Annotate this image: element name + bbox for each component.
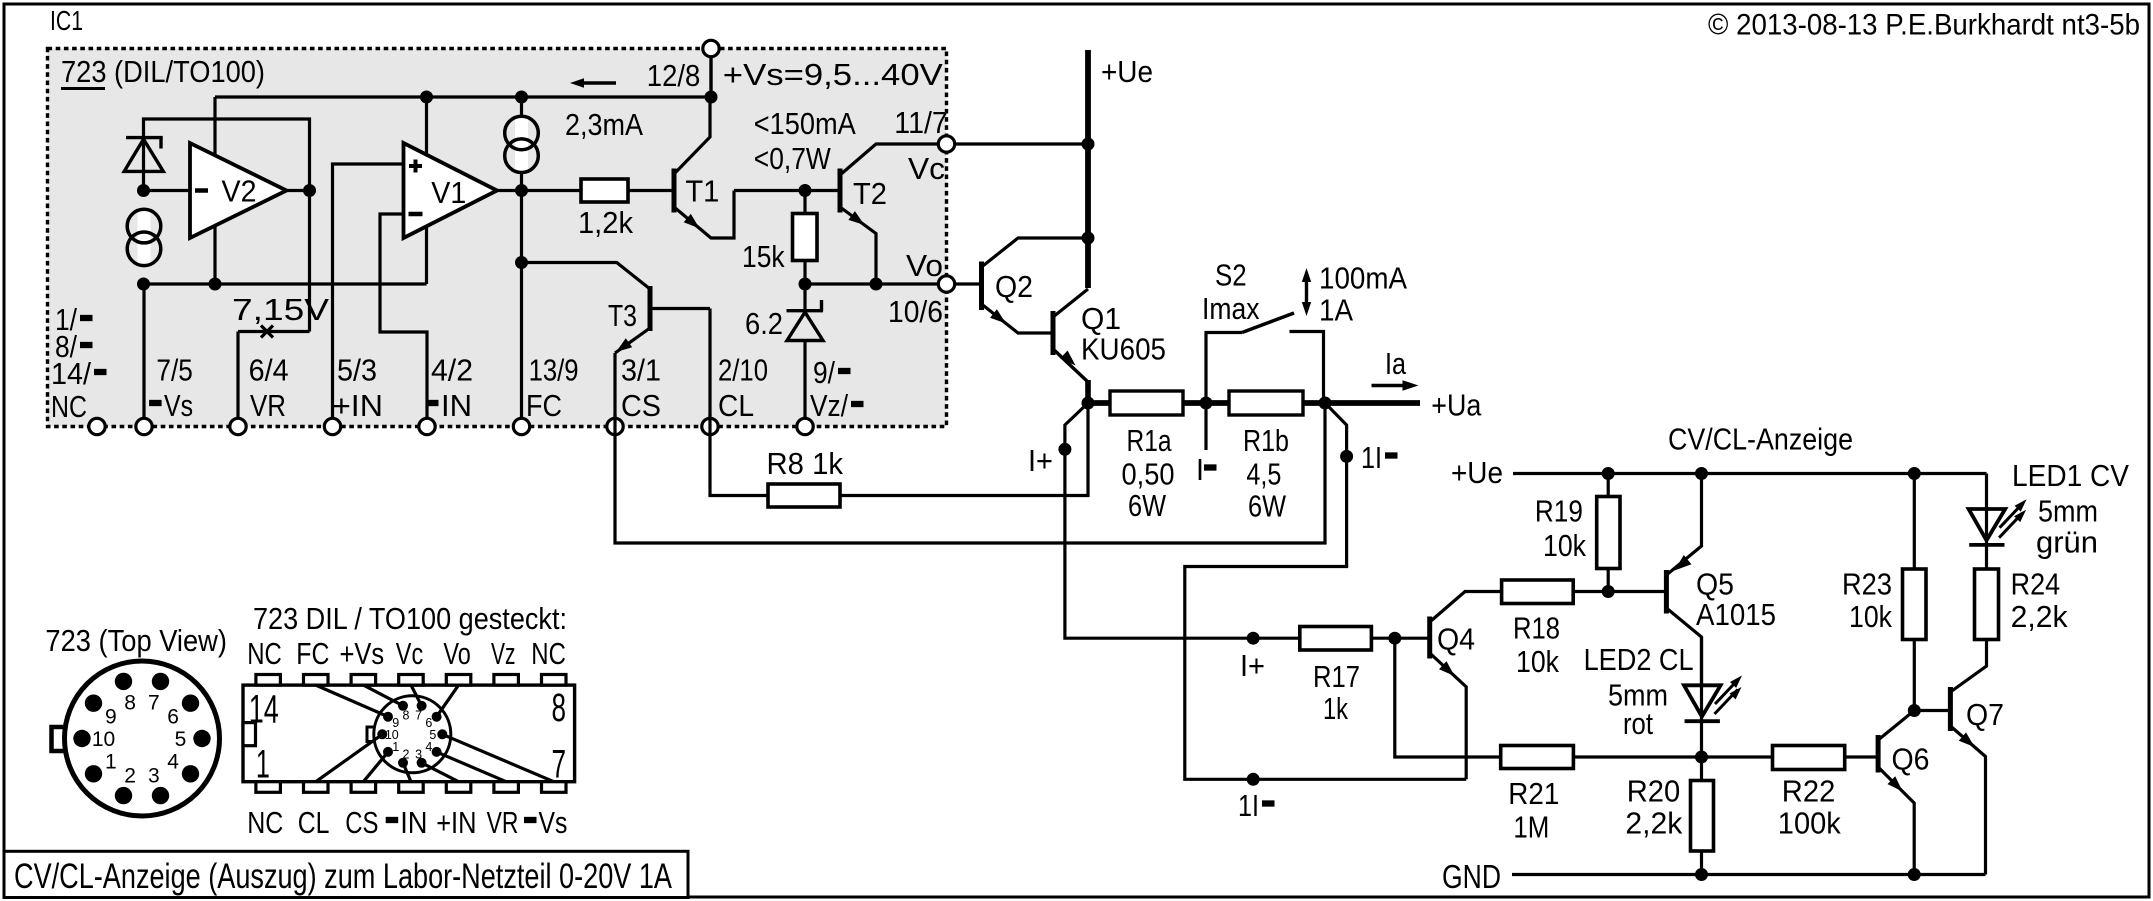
svg-text:8: 8 xyxy=(124,691,136,714)
svg-text:S2: S2 xyxy=(1215,258,1247,293)
svg-text:Ia: Ia xyxy=(1385,346,1407,381)
svg-text:Vz: Vz xyxy=(491,636,516,671)
label +Ua xyxy=(1431,388,1482,423)
svg-text:2: 2 xyxy=(124,765,136,788)
svg-text:7: 7 xyxy=(415,708,422,722)
label 7/5 -Vs xyxy=(149,353,193,424)
wire R18 to Q5 base xyxy=(1573,590,1666,593)
label 1I- upper xyxy=(1361,440,1398,475)
svg-text:I+: I+ xyxy=(1240,648,1265,683)
svg-text:5: 5 xyxy=(175,728,187,751)
wire +IN pin 5/3 xyxy=(333,164,404,427)
node R19 top xyxy=(1602,467,1615,480)
wire -Vs rail xyxy=(144,282,427,285)
resistor R18 xyxy=(1502,580,1574,679)
svg-text:1k: 1k xyxy=(1323,691,1348,726)
node R23 top xyxy=(1908,467,1921,480)
wire V2 input xyxy=(144,189,191,192)
label 5/3 +IN xyxy=(332,353,383,424)
svg-text:10: 10 xyxy=(92,728,115,751)
transistor T1 xyxy=(674,97,734,238)
wire GND rail xyxy=(1512,873,1986,876)
wire VR pin 6/4 xyxy=(236,332,239,427)
arrow 100mA/1A toggle xyxy=(1302,268,1311,316)
label 723 (DIL/TO100) xyxy=(61,54,265,89)
svg-text:6W: 6W xyxy=(1248,489,1287,524)
IC1 723 internal dashed box xyxy=(48,49,947,427)
wire VR horizontal 7,15V xyxy=(238,330,310,333)
transistor Q2 xyxy=(982,238,1089,333)
wire V1 supply xyxy=(425,97,428,284)
node rail-12/8 xyxy=(705,91,718,104)
node I- junction xyxy=(1200,397,1213,410)
wire -IN pin 4/2 xyxy=(380,214,427,427)
pin 11/7 Vc xyxy=(938,136,954,152)
op-amp V2 xyxy=(190,143,287,238)
wire CS to shunt right xyxy=(615,403,1325,543)
svg-text:100k: 100k xyxy=(1778,806,1841,841)
svg-text:CV/CL-Anzeige (Auszug) zum Lab: CV/CL-Anzeige (Auszug) zum Labor-Netztei… xyxy=(14,857,673,896)
label IC1 xyxy=(50,5,83,36)
svg-text:Vz/: Vz/ xyxy=(810,388,848,423)
node T2 emitter xyxy=(870,278,883,291)
svg-text:R22: R22 xyxy=(1782,774,1836,809)
svg-text:10: 10 xyxy=(385,728,399,742)
svg-text:1I: 1I xyxy=(1238,788,1259,823)
svg-text:R1a: R1a xyxy=(1127,423,1173,458)
transistor T2 xyxy=(840,144,939,284)
wire +Ue input xyxy=(1085,50,1091,288)
svg-text:Vo: Vo xyxy=(906,248,943,283)
inner TO100 pin numbers xyxy=(385,708,436,761)
wire I- stub xyxy=(1204,403,1207,450)
svg-text:Vc: Vc xyxy=(396,636,423,671)
svg-text:6W: 6W xyxy=(1128,488,1167,523)
svg-text:V2: V2 xyxy=(222,174,257,209)
resistor R1b xyxy=(1229,391,1303,415)
node LED2 cathode xyxy=(1695,751,1708,764)
label 4/2 -IN xyxy=(426,353,473,424)
label 9/- Vz/- xyxy=(810,355,864,423)
label 1/- 8/- 14/- xyxy=(51,302,107,391)
node rail-V1supply xyxy=(420,91,433,104)
svg-text:Vo: Vo xyxy=(443,636,470,671)
pin FC on IC edge xyxy=(513,418,529,434)
svg-text:Vc: Vc xyxy=(908,151,945,186)
wire Q2 base xyxy=(955,282,982,285)
LED2 CL diode xyxy=(1684,637,1742,757)
svg-text:2,3mA: 2,3mA xyxy=(565,107,643,142)
svg-text:6/4: 6/4 xyxy=(249,353,289,388)
transistor Q6 xyxy=(1878,711,1929,875)
svg-text:10k: 10k xyxy=(1849,599,1892,634)
svg-text:Q7: Q7 xyxy=(1966,697,2004,732)
svg-text:R17: R17 xyxy=(1313,659,1360,694)
transistor Q5 xyxy=(1666,474,1776,688)
svg-text:3: 3 xyxy=(415,747,422,761)
node V2 output xyxy=(303,184,316,197)
node -Vs V2 xyxy=(209,278,222,291)
svg-text:1: 1 xyxy=(256,742,270,786)
svg-text:R18: R18 xyxy=(1513,611,1560,646)
switch S2 xyxy=(1206,313,1324,403)
label 7,15V xyxy=(232,292,329,327)
resistor R24 xyxy=(1975,567,2069,640)
svg-text:10k: 10k xyxy=(1543,528,1586,563)
node Q5 emitter top xyxy=(1695,467,1708,480)
node R19 bottom xyxy=(1602,585,1615,598)
wire Q7 base xyxy=(1914,709,1950,712)
wire T1 emitter to T2 base xyxy=(734,189,840,192)
label 10/6 xyxy=(888,294,943,329)
wire LED1 feed xyxy=(1985,474,1988,570)
svg-text:15k: 15k xyxy=(742,239,785,274)
label I+ upper xyxy=(1028,443,1053,478)
svg-text:R1b: R1b xyxy=(1243,423,1289,458)
svg-text:6.2: 6.2 xyxy=(745,306,783,341)
svg-text:VR: VR xyxy=(487,805,519,840)
pin CS on IC edge xyxy=(607,418,623,434)
svg-text:rot: rot xyxy=(1623,706,1653,741)
label LED1 CV 5mm gruen xyxy=(2012,458,2129,560)
label LED2 CL 5mm rot xyxy=(1584,642,1694,741)
resistor R23 xyxy=(1842,474,1926,711)
svg-text:4: 4 xyxy=(425,740,432,754)
label S2 Imax xyxy=(1202,258,1260,327)
svg-text:I+: I+ xyxy=(1028,443,1053,478)
svg-text:2,2k: 2,2k xyxy=(2011,599,2068,634)
wire +Ue rail CVCL xyxy=(1513,472,1987,475)
label CV/CL-Anzeige xyxy=(1668,422,1853,457)
svg-text:1M: 1M xyxy=(1513,810,1549,845)
svg-text:4: 4 xyxy=(167,751,179,774)
label +Ue xyxy=(1101,54,1153,89)
svg-text:11/7: 11/7 xyxy=(894,105,948,140)
resistor 1,2k xyxy=(578,179,633,240)
svg-text:R24: R24 xyxy=(2011,567,2061,602)
svg-text:1A: 1A xyxy=(1319,293,1353,328)
svg-text:V1: V1 xyxy=(431,175,466,210)
svg-text:IN: IN xyxy=(441,388,472,423)
wire Vc to +Ue xyxy=(955,142,1089,145)
svg-text:9/: 9/ xyxy=(813,355,835,390)
resistor R1a xyxy=(1110,391,1183,415)
svg-text:723 (DIL/TO100): 723 (DIL/TO100) xyxy=(61,54,265,89)
node Q6 GND xyxy=(1908,868,1921,881)
DIL corner numbers xyxy=(249,686,566,786)
label 11/7 xyxy=(894,105,948,140)
transistor T3 xyxy=(608,286,710,353)
svg-text:Q4: Q4 xyxy=(1437,622,1475,657)
wire R21 to LED2 xyxy=(1573,755,1701,758)
svg-text:+Ua: +Ua xyxy=(1431,388,1482,423)
svg-text:10k: 10k xyxy=(1516,644,1559,679)
svg-text:NC: NC xyxy=(247,805,283,840)
svg-text:A1015: A1015 xyxy=(1696,597,1776,632)
svg-text:1,2k: 1,2k xyxy=(578,205,633,240)
svg-text:T2: T2 xyxy=(853,176,887,211)
node I+ upper xyxy=(1058,443,1071,456)
node Q1 emitter xyxy=(1082,397,1095,410)
TO100 pins xyxy=(73,673,210,805)
op-amp V1 xyxy=(404,143,498,238)
svg-text:1I: 1I xyxy=(1361,440,1382,475)
label NC xyxy=(51,389,87,424)
svg-text:6: 6 xyxy=(425,716,432,730)
svg-text:4/2: 4/2 xyxy=(431,353,473,388)
label GND xyxy=(1442,858,1501,895)
svg-text:14/: 14/ xyxy=(51,356,91,391)
wire V2 supply xyxy=(213,97,216,284)
wire CL to R8 xyxy=(710,414,768,496)
svg-text:+Ue: +Ue xyxy=(1451,455,1503,490)
svg-text:R20: R20 xyxy=(1627,774,1681,809)
svg-text:5mm: 5mm xyxy=(2038,494,2098,529)
wire 12/8 stub xyxy=(709,56,712,97)
resistor R20 xyxy=(1625,757,1713,875)
svg-text:+Ue: +Ue xyxy=(1101,54,1153,89)
pin NC on IC edge xyxy=(89,418,105,434)
svg-text:1: 1 xyxy=(392,740,399,754)
svg-text:FC: FC xyxy=(526,388,562,423)
svg-text:IC1: IC1 xyxy=(50,5,83,36)
node -Vs zener xyxy=(137,278,150,291)
node 15k top xyxy=(799,184,812,197)
transistor Q1 xyxy=(1053,289,1166,403)
copyright xyxy=(1708,9,2140,42)
svg-text:IN: IN xyxy=(400,805,427,840)
svg-text:<0,7W: <0,7W xyxy=(754,141,832,176)
svg-text:7: 7 xyxy=(148,691,160,714)
wire R22 to Q6 xyxy=(1845,755,1878,758)
svg-text:+Vs=9,5...40V: +Vs=9,5...40V xyxy=(723,57,943,92)
svg-text:CV/CL-Anzeige: CV/CL-Anzeige xyxy=(1668,422,1853,457)
svg-text:NC: NC xyxy=(531,636,566,671)
svg-text:12/8: 12/8 xyxy=(647,58,701,93)
wire T3 collector xyxy=(522,263,651,290)
svg-text:R23: R23 xyxy=(1842,567,1892,602)
svg-text:1: 1 xyxy=(105,751,117,774)
node I+ lower xyxy=(1247,632,1260,645)
label Vc xyxy=(908,151,945,186)
node Q2 collector xyxy=(1082,232,1095,245)
svg-text:Vs: Vs xyxy=(164,388,193,423)
svg-text:T1: T1 xyxy=(685,174,719,209)
resistor R21 xyxy=(1501,746,1574,845)
svg-text:2,2k: 2,2k xyxy=(1625,806,1682,841)
svg-text:8: 8 xyxy=(403,708,410,722)
svg-text:100mA: 100mA xyxy=(1319,261,1407,296)
label <0,7W xyxy=(754,141,832,176)
svg-text:6: 6 xyxy=(167,705,179,728)
label 1I- lower xyxy=(1238,788,1275,823)
svg-text:723 (Top View): 723 (Top View) xyxy=(45,623,227,658)
svg-text:KU605: KU605 xyxy=(1081,332,1166,367)
svg-text:5/3: 5/3 xyxy=(337,353,377,388)
wire Vo line xyxy=(805,282,939,285)
svg-text:2/10: 2/10 xyxy=(718,353,768,388)
svg-text:R21: R21 xyxy=(1508,776,1559,811)
svg-text:7,15V: 7,15V xyxy=(232,292,329,327)
pin CL on IC edge xyxy=(702,418,718,434)
svg-text:Q6: Q6 xyxy=(1892,742,1930,777)
arrow Ia xyxy=(1372,346,1419,391)
LED1 CV diode xyxy=(1969,499,2027,545)
svg-text:CL: CL xyxy=(718,388,754,423)
svg-text:R8 1k: R8 1k xyxy=(767,446,844,481)
pin +IN on IC edge xyxy=(324,418,340,434)
zener diode D1 xyxy=(124,138,163,191)
label 2,3mA xyxy=(565,107,643,142)
svg-text:2: 2 xyxy=(403,747,410,761)
svg-text:+Vs: +Vs xyxy=(340,636,385,671)
wire +Vs top rail xyxy=(215,95,711,98)
wire R17 to Q4 xyxy=(1371,637,1429,640)
label 1A xyxy=(1319,293,1353,328)
svg-text:723 DIL / TO100 gesteckt:: 723 DIL / TO100 gesteckt: xyxy=(253,601,567,636)
title text xyxy=(14,857,673,896)
svg-text:7/5: 7/5 xyxy=(156,353,192,388)
wire V2 output xyxy=(287,189,310,192)
wire V2 feedback box xyxy=(144,119,310,191)
inner TO100 pins xyxy=(377,701,447,768)
svg-text:Vs: Vs xyxy=(539,805,568,840)
wire R to T1 base xyxy=(628,189,674,192)
DIL pin stubs xyxy=(256,675,566,793)
wire +Ua rail xyxy=(1088,400,1420,406)
pin -Vs on IC edge xyxy=(136,418,152,434)
node Vc +Ue xyxy=(1082,138,1095,151)
node shunt right xyxy=(1319,397,1332,410)
label 723 DIL / TO100 gesteckt: xyxy=(253,601,567,636)
wire R8 to +Ua node xyxy=(840,403,1088,496)
pin 10/6 Vo xyxy=(938,276,954,292)
svg-text:9: 9 xyxy=(105,705,117,728)
node V1 output xyxy=(515,184,528,197)
wire -Vs pin 7/5 xyxy=(142,284,145,427)
pin 12/8 +Vs xyxy=(703,40,719,56)
svg-text:R19: R19 xyxy=(1535,494,1583,529)
label +Vs=9,5...40V xyxy=(723,57,943,92)
resistor R17 xyxy=(1300,627,1372,727)
label 12/8 xyxy=(647,58,701,93)
svg-text:CS: CS xyxy=(345,805,378,840)
node 15k bottom xyxy=(799,278,812,291)
wire V1 out to R xyxy=(522,189,582,192)
label 100mA xyxy=(1319,261,1407,296)
wire FC pin 13/9 xyxy=(520,191,523,427)
svg-text:CL: CL xyxy=(298,805,330,840)
label <150mA xyxy=(754,106,856,141)
wire T3 emitter to CS xyxy=(613,353,616,427)
inner TO100 circle xyxy=(374,696,451,773)
wire I+ sense xyxy=(1065,403,1300,638)
current source I1 xyxy=(127,209,161,266)
package TO100 tab xyxy=(52,727,68,751)
svg-text:VR: VR xyxy=(250,388,286,423)
svg-text:I: I xyxy=(1196,452,1204,487)
node Q7 base xyxy=(1908,704,1921,717)
title box xyxy=(4,851,688,897)
current direction arrow xyxy=(570,78,616,88)
svg-text:13/9: 13/9 xyxy=(529,353,579,388)
label 6.2 xyxy=(745,306,783,341)
wire V2 out to VR xyxy=(308,191,311,332)
resistor 15k xyxy=(742,191,817,285)
node rail-CS2 xyxy=(515,91,528,104)
label R1a 0,50 6W xyxy=(1122,423,1175,523)
wire 1I- sense xyxy=(1185,403,1466,779)
DIL top pin names xyxy=(247,636,566,671)
svg-text:0,50: 0,50 xyxy=(1122,457,1175,492)
svg-text:LED1 CV: LED1 CV xyxy=(2012,458,2129,493)
current source I2 xyxy=(505,116,539,173)
transistor Q7 xyxy=(1950,640,2004,875)
marker x 7,15V xyxy=(261,326,273,338)
wire Q4base to R21 xyxy=(1395,638,1501,757)
label Vo xyxy=(906,248,943,283)
label 3/1 CS xyxy=(621,353,661,424)
svg-text:NC: NC xyxy=(247,636,282,671)
resistor R8 xyxy=(767,446,844,507)
wire V1 output xyxy=(497,189,522,192)
wire R22 line xyxy=(1702,755,1773,758)
pin Vz on IC edge xyxy=(797,418,813,434)
svg-text:<150mA: <150mA xyxy=(754,106,856,141)
label 2/10 CL xyxy=(718,353,768,424)
label +Ue right xyxy=(1451,455,1503,490)
DIL to TO100 mapping wires xyxy=(316,685,554,782)
svg-text:T3: T3 xyxy=(608,298,637,333)
svg-text:NC: NC xyxy=(51,389,87,424)
svg-text:5: 5 xyxy=(429,728,436,742)
svg-text:CS: CS xyxy=(621,388,661,423)
pin -IN on IC edge xyxy=(419,418,435,434)
svg-text:14: 14 xyxy=(249,688,279,732)
svg-text:grün: grün xyxy=(2036,525,2098,560)
label I- xyxy=(1196,452,1217,487)
DIL notch xyxy=(243,723,256,746)
label R1b 4,5 6W xyxy=(1243,423,1289,524)
TO100 pin numbers xyxy=(92,691,187,787)
node FC branch xyxy=(515,256,528,269)
package TO100 can xyxy=(65,661,220,816)
node 1I- lower xyxy=(1247,773,1260,786)
svg-text:© 2013-08-13 P.E.Burkhardt nt3: © 2013-08-13 P.E.Burkhardt nt3-5b xyxy=(1708,9,2140,42)
pin VR on IC edge xyxy=(230,418,246,434)
DIL bottom pin names xyxy=(247,805,567,840)
svg-text:3: 3 xyxy=(148,765,160,788)
wire CS2 drop xyxy=(520,97,523,191)
node Q4 base xyxy=(1388,632,1401,645)
transistor Q4 xyxy=(1430,592,1502,780)
svg-text:+IN: +IN xyxy=(436,805,476,840)
DIL package body xyxy=(243,685,575,782)
svg-text:4,5: 4,5 xyxy=(1246,457,1281,492)
svg-text:FC: FC xyxy=(296,636,329,671)
svg-text:7: 7 xyxy=(552,742,567,786)
label 13/9 FC xyxy=(526,353,579,424)
svg-text:10/6: 10/6 xyxy=(888,294,943,329)
svg-text:+IN: +IN xyxy=(332,388,383,423)
svg-text:Imax: Imax xyxy=(1202,291,1260,326)
label 6/4 VR xyxy=(249,353,289,424)
inner TO100 tab xyxy=(367,727,381,742)
svg-text:Q2: Q2 xyxy=(995,269,1033,304)
label I+ lower xyxy=(1240,648,1265,683)
svg-text:GND: GND xyxy=(1442,858,1501,895)
svg-text:8: 8 xyxy=(552,686,567,730)
